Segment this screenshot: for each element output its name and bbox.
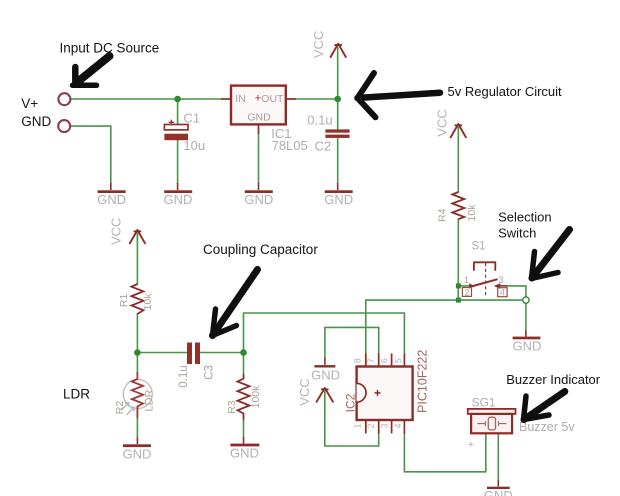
- svg-text:GND: GND: [122, 447, 151, 462]
- svg-text:VCC: VCC: [435, 109, 450, 136]
- svg-text:GND: GND: [247, 111, 271, 123]
- svg-text:78L05: 78L05: [272, 138, 308, 153]
- svg-text:C2: C2: [315, 138, 332, 153]
- svg-text:LDR: LDR: [63, 387, 90, 402]
- svg-text:PIC10F222: PIC10F222: [416, 350, 430, 413]
- svg-text:4: 4: [500, 288, 505, 298]
- svg-text:5: 5: [394, 358, 404, 363]
- svg-text:IN: IN: [235, 93, 246, 105]
- svg-text:100k: 100k: [250, 385, 262, 409]
- svg-text:+: +: [468, 440, 474, 451]
- svg-text:VCC: VCC: [297, 378, 312, 405]
- svg-text:10k: 10k: [466, 204, 478, 222]
- svg-text:Buzzer Indicator: Buzzer Indicator: [506, 372, 601, 387]
- svg-text:GND: GND: [311, 368, 340, 383]
- svg-text:Selection: Selection: [498, 210, 551, 225]
- svg-text:OUT: OUT: [261, 93, 284, 105]
- svg-text:10k: 10k: [142, 293, 154, 311]
- svg-text:GND: GND: [513, 339, 542, 354]
- svg-text:5v Regulator Circuit: 5v Regulator Circuit: [448, 84, 563, 99]
- svg-text:SG1: SG1: [472, 396, 496, 410]
- svg-text:C3: C3: [204, 365, 216, 380]
- svg-text:LDR: LDR: [143, 389, 155, 411]
- svg-text:GND: GND: [230, 446, 259, 461]
- svg-text:S1: S1: [472, 241, 486, 253]
- svg-text:2: 2: [366, 423, 376, 428]
- svg-text:IC2: IC2: [344, 393, 358, 412]
- svg-text:Switch: Switch: [498, 226, 536, 241]
- svg-text:VCC: VCC: [109, 218, 124, 245]
- svg-text:V+: V+: [21, 96, 38, 111]
- svg-text:0.1u: 0.1u: [307, 113, 332, 128]
- svg-text:R3: R3: [226, 400, 238, 414]
- svg-text:1: 1: [464, 275, 469, 285]
- svg-text:GND: GND: [324, 192, 353, 207]
- svg-text:GND: GND: [97, 192, 126, 207]
- svg-text:1: 1: [353, 423, 363, 428]
- svg-text:0.1u: 0.1u: [178, 365, 190, 387]
- svg-text:6: 6: [379, 358, 389, 363]
- svg-text:R4: R4: [436, 208, 448, 222]
- svg-text:GND: GND: [244, 192, 273, 207]
- svg-text:GND: GND: [164, 192, 193, 207]
- svg-text:3: 3: [498, 275, 503, 285]
- svg-text:8: 8: [353, 358, 363, 363]
- svg-text:3: 3: [379, 423, 389, 428]
- svg-text:4: 4: [393, 423, 403, 428]
- svg-text:GND: GND: [484, 488, 513, 496]
- svg-text:+: +: [255, 93, 261, 105]
- svg-text:2: 2: [464, 287, 469, 297]
- svg-text:GND: GND: [21, 114, 51, 129]
- svg-text:R2: R2: [114, 401, 126, 415]
- svg-text:VCC: VCC: [311, 31, 326, 58]
- svg-text:Buzzer 5v: Buzzer 5v: [519, 420, 575, 434]
- svg-text:Coupling Capacitor: Coupling Capacitor: [203, 242, 318, 257]
- svg-text:10u: 10u: [183, 138, 205, 153]
- svg-text:7: 7: [366, 358, 376, 363]
- svg-text:C1: C1: [183, 111, 200, 126]
- svg-text:R1: R1: [118, 294, 130, 308]
